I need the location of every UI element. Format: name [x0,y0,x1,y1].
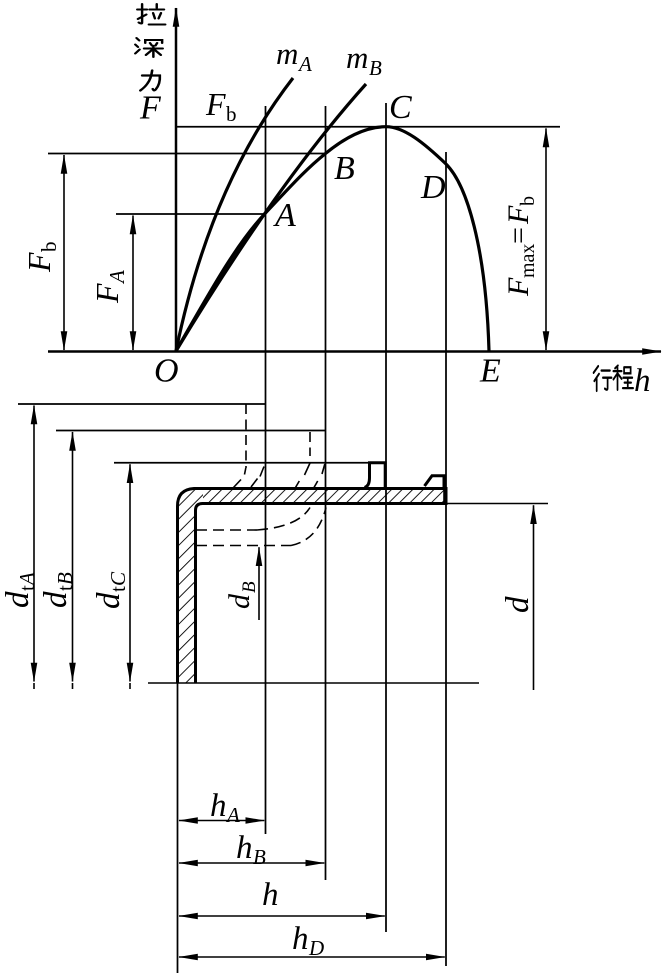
label dB [223,581,260,609]
svg-text:C: C [389,89,412,126]
dim arrow dB [258,547,260,620]
curve mB [176,84,366,351]
dim line h [179,915,385,917]
dim line hA [179,820,264,822]
svg-text:B: B [253,845,266,869]
svg-text:=: = [502,227,535,244]
ref line for d [446,503,548,505]
svg-text:h: h [634,363,651,399]
svg-text:D: D [420,169,446,206]
svg-text:A: A [105,270,129,285]
dim line hD [179,956,445,958]
stage B inner dashed [196,545,291,547]
metal hatched region [203,487,446,505]
dim arrow d [533,505,535,690]
label d [500,596,536,613]
cup right edge [445,487,448,505]
dim arrow Fb [63,155,65,350]
vertical guide D [445,152,447,966]
y axis F [175,8,178,352]
guide line Fb left level [48,153,326,155]
svg-text:F: F [205,86,226,122]
svg-text:B: B [369,56,382,80]
svg-text:B: B [53,572,77,585]
svg-text:d: d [500,596,536,613]
curve mA [176,78,293,351]
svg-text:m: m [276,36,298,71]
svg-text:A: A [225,803,240,827]
dim line dtC [114,462,369,464]
rim tab C [365,463,386,488]
label dtC [91,571,130,609]
svg-text:m: m [346,40,368,75]
label Fb (left, rotated) [21,242,61,274]
guide line Fb level (C peak) [176,126,560,128]
dim line dtA [18,403,266,405]
x axis 行程h [48,350,661,353]
label 行程h [594,366,612,391]
main force curve OABCDE [176,127,489,351]
centerline [148,682,479,684]
svg-text:F: F [89,283,125,304]
dim arrow Fmax=Fb [545,128,547,350]
stage B dashed flange [309,432,311,456]
svg-text:d: d [0,591,36,608]
svg-text:B: B [239,581,260,593]
svg-text:d: d [223,593,256,609]
label dtB [38,572,77,608]
svg-text:A: A [297,52,312,76]
label 力 [140,71,160,91]
dim arrow dtC [129,464,131,681]
vertical guide A [265,106,267,834]
label dtA [0,572,39,608]
dim arrow FA [132,216,134,351]
dim arrow dtB [72,432,74,682]
guide line FA level [116,213,266,215]
svg-text:d: d [38,591,74,608]
label FA (left, rotated) [89,270,129,304]
vertical guide B [325,106,327,880]
svg-text:F: F [21,252,57,273]
cup outer outline [178,489,447,684]
dim arrow dtA [33,406,35,682]
svg-text:h: h [210,788,227,824]
dim stub dtB [72,683,74,689]
svg-text:h: h [262,877,279,913]
svg-text:max: max [517,244,539,278]
dim line hB [179,862,324,864]
svg-text:h: h [236,830,253,866]
svg-text:b: b [37,242,61,253]
cup inner outline [196,504,447,684]
svg-text:h: h [292,921,309,957]
stage A inner dashed [196,529,257,531]
stage A dashed flange [196,404,326,546]
svg-text:E: E [479,353,501,390]
svg-text:O: O [154,353,179,390]
dim stub dtA [33,683,35,689]
svg-text:D: D [308,936,324,960]
svg-text:F: F [502,277,535,297]
dim stub dtC [129,683,131,689]
svg-text:A: A [15,572,39,587]
label Fmax=Fb (right, rotated) [502,196,539,297]
svg-text:F: F [502,205,535,225]
dim line dtB [56,430,326,432]
left reference vertical [177,683,179,973]
svg-text:b: b [226,102,237,126]
vertical guide C [385,103,387,932]
label 拉 [137,4,165,25]
svg-text:d: d [91,592,127,609]
svg-text:A: A [273,197,296,234]
label 深 [135,38,163,57]
svg-text:C: C [106,571,130,586]
svg-text:b: b [517,196,539,206]
svg-text:F: F [139,90,162,127]
svg-text:B: B [334,150,355,187]
rim tab D [425,476,445,487]
